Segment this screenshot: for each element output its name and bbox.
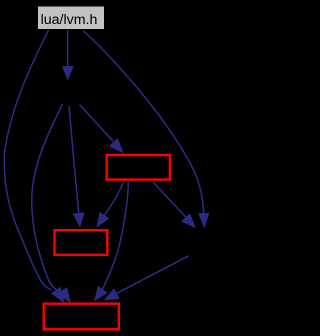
arrowhead F->B: [109, 138, 124, 154]
arrowhead A->D: [51, 287, 65, 303]
arrowhead F->C: [73, 212, 85, 228]
wire A->D (far left sweeping curve): [4, 30, 51, 290]
wire A->F (vertical from lua/lvm.h down): [67, 30, 69, 67]
wire B->D (steep curve down): [103, 182, 129, 290]
arrowhead B->D: [94, 286, 108, 302]
node A lua/lvm.h (current file, grey box): [38, 6, 105, 30]
arrowhead A->F: [62, 66, 74, 81]
node B (red truncated box 1): [107, 155, 170, 180]
wire B->E (diagonal down-right): [153, 182, 186, 218]
arrowhead B->C: [96, 212, 109, 228]
wire A->E (right sweeping curve): [84, 31, 204, 213]
svg-text:lua/lvm.h: lua/lvm.h: [41, 12, 98, 28]
arrowhead A->E: [198, 213, 209, 229]
wire E->D (long diagonal from invisible node): [117, 256, 189, 293]
arrowhead E->D: [104, 288, 120, 300]
wire F->C (near vertical to red box 2): [69, 106, 79, 213]
node D (red truncated box 3): [44, 304, 119, 330]
wire B->C (diagonal down-left): [105, 182, 124, 215]
arrowhead B->E: [181, 213, 196, 228]
arrowhead F->D: [57, 287, 71, 303]
wire F->B (diagonal to red box 1): [80, 105, 114, 142]
wire F->D (second left curve): [32, 104, 63, 291]
node C (red truncated box 2): [55, 230, 108, 255]
